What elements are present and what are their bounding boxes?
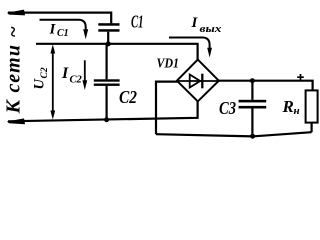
node/junction: C3 bottom on bottom rail: [250, 134, 255, 139]
svg-text:I: I: [61, 65, 69, 82]
capacitor C3: [239, 81, 267, 137]
svg-text:С1: С1: [57, 28, 69, 39]
label current IC1: [49, 21, 69, 39]
label current Iвых: [191, 15, 222, 35]
wire: bottom mains line with left arrowhead: [7, 101, 198, 124]
svg-text:С2: С2: [70, 75, 83, 86]
capacitor C1: [98, 23, 119, 44]
annotation arrow current Iвых (bent, pointing down at bridge): [169, 38, 212, 58]
label voltage UC2 (rotated): [32, 67, 51, 89]
label polarity plus: [297, 74, 304, 81]
label current IC2: [61, 65, 83, 86]
svg-text:С3: С3: [219, 98, 236, 118]
annotation arrow current IC1 (overline curving into down arrow): [40, 20, 89, 39]
svg-text:I: I: [49, 21, 57, 37]
label Rн: [282, 97, 300, 117]
wire: bottom DC rail: [156, 132, 312, 136]
svg-text:С1: С1: [131, 12, 144, 32]
annotation arrow current IC2 (down): [82, 60, 87, 90]
svg-text:R: R: [282, 97, 294, 116]
wire: bridge left (minus) output down to bottom rail: [156, 82, 178, 135]
node/junction: C1 bottom joins mid wire: [106, 41, 111, 46]
wire: top mains line with left arrowhead: [7, 10, 111, 24]
wire: bridge right (plus) output rail to load: [219, 81, 313, 91]
capacitor C2: [94, 44, 120, 120]
annotation arrow voltage UC2 (double headed vertical): [50, 44, 55, 119]
node/junction: C2 bottom joins bottom mains wire: [104, 117, 109, 122]
node/junction: C3 top on plus rail: [250, 78, 255, 83]
svg-text:К сети ~: К сети ~: [3, 25, 25, 114]
diode inside bridge VD1: [178, 74, 218, 89]
svg-text:I: I: [191, 15, 199, 31]
svg-text:С2: С2: [40, 67, 50, 78]
svg-text:вых: вых: [200, 24, 222, 35]
bridge rectifier VD1 (diamond): [177, 60, 219, 102]
resistor Rн (load): [306, 90, 318, 132]
svg-text:С2: С2: [119, 87, 137, 107]
svg-text:н: н: [294, 105, 300, 117]
wire: mid horizontal from node to bridge top: [36, 44, 198, 60]
svg-text:VD1: VD1: [157, 56, 180, 71]
